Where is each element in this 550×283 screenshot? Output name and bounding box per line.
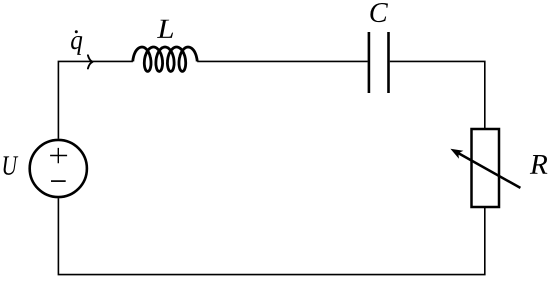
wire: top middle segment from inductor right end to capacitor left plate [197,60,368,62]
minus sign inside source [51,180,66,182]
wire: from inductor left end, to top-left corner, down to source top terminal [58,61,132,138]
current arrow q-dot direction [88,55,93,68]
label U [3,156,18,174]
label L [157,20,173,38]
resistor R body (variable resistor rectangle) [472,129,500,207]
wire: from resistor bottom, down right side, along bottom return, up to source bottom terminal [58,198,484,274]
inductor L coil [133,47,197,71]
wire: from capacitor right plate, to top-right corner, down to resistor top [390,61,485,129]
capacitor C left plate [368,32,371,93]
label R [530,155,548,174]
plus sign inside source [50,148,67,163]
label C [370,3,388,22]
variable resistor arrow through body [457,153,520,188]
voltage source U circle [30,140,87,197]
label q-dot [71,36,82,55]
capacitor C right plate [387,32,390,93]
